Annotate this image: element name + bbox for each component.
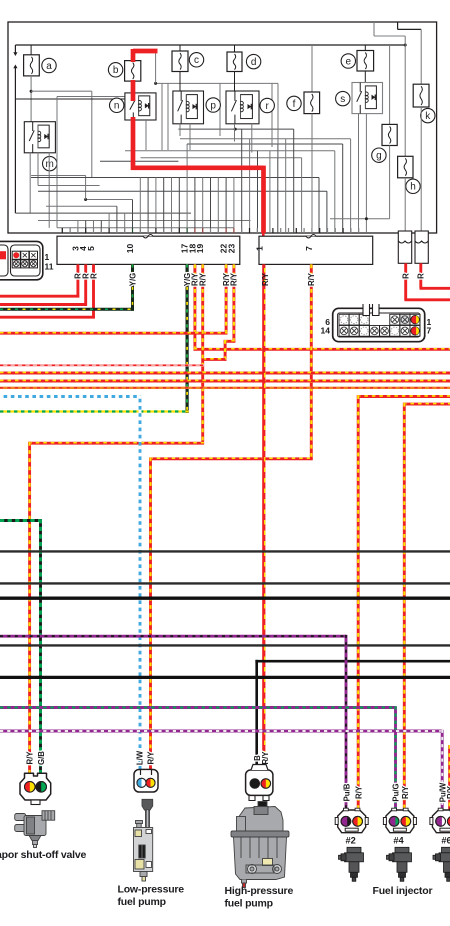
svg-text:apor shut-off valve: apor shut-off valve xyxy=(0,849,86,861)
svg-text:g: g xyxy=(376,151,382,162)
svg-text:p: p xyxy=(210,100,216,111)
svg-text:11: 11 xyxy=(45,262,54,272)
svg-text:1: 1 xyxy=(254,246,264,251)
svg-text:d: d xyxy=(251,57,257,68)
svg-text:Low-pressure: Low-pressure xyxy=(118,884,185,896)
svg-text:G/B: G/B xyxy=(37,751,46,765)
svg-text:h: h xyxy=(410,182,416,193)
svg-text:R/Y: R/Y xyxy=(307,272,316,286)
svg-text:Pu/B: Pu/B xyxy=(342,783,351,801)
svg-text:R/Y: R/Y xyxy=(199,272,208,286)
svg-text:R/Y: R/Y xyxy=(261,751,270,765)
svg-text:R: R xyxy=(402,273,411,279)
svg-text:#6: #6 xyxy=(441,836,450,846)
svg-text:L/W: L/W xyxy=(136,750,145,765)
svg-text:s: s xyxy=(340,94,345,105)
svg-text:R/Y: R/Y xyxy=(401,785,410,799)
svg-text:7: 7 xyxy=(427,326,432,336)
svg-text:R: R xyxy=(417,273,426,279)
svg-text:e: e xyxy=(346,56,352,67)
svg-text:1: 1 xyxy=(45,252,50,262)
svg-text:R/Y: R/Y xyxy=(147,751,156,765)
svg-text:14: 14 xyxy=(321,326,331,336)
svg-text:n: n xyxy=(114,101,120,112)
svg-text:High-pressure: High-pressure xyxy=(225,885,294,897)
svg-text:a: a xyxy=(46,61,52,72)
svg-text:b: b xyxy=(113,65,119,76)
svg-text:Pu/G: Pu/G xyxy=(392,783,401,801)
svg-text:23: 23 xyxy=(226,244,236,254)
svg-text:10: 10 xyxy=(125,244,135,254)
svg-text:R/Y: R/Y xyxy=(355,785,364,799)
svg-text:R/Y: R/Y xyxy=(446,785,450,799)
svg-text:#4: #4 xyxy=(393,836,404,846)
svg-text:Fuel injector: Fuel injector xyxy=(373,885,433,897)
svg-text:5: 5 xyxy=(86,246,96,251)
svg-text:7: 7 xyxy=(304,246,314,251)
svg-text:#2: #2 xyxy=(346,836,356,846)
svg-text:fuel pump: fuel pump xyxy=(225,898,273,910)
svg-text:R/Y: R/Y xyxy=(261,272,270,286)
svg-text:19: 19 xyxy=(195,244,205,254)
svg-text:R: R xyxy=(89,273,98,279)
svg-text:R/Y: R/Y xyxy=(230,272,239,286)
svg-text:f: f xyxy=(293,99,296,110)
svg-text:c: c xyxy=(194,55,199,66)
svg-text:R/Y: R/Y xyxy=(25,751,34,765)
svg-text:Y/G: Y/G xyxy=(128,273,137,286)
svg-text:fuel pump: fuel pump xyxy=(118,896,166,908)
